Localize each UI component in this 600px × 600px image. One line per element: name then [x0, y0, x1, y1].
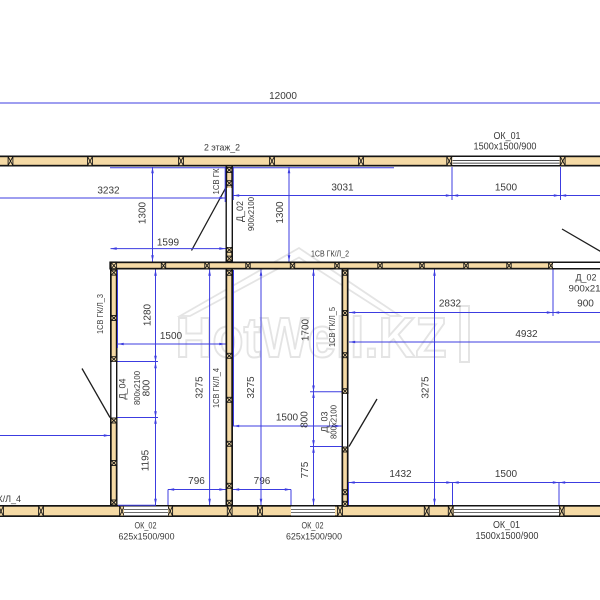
- svg-text:1300: 1300: [275, 201, 286, 224]
- svg-text:4932: 4932: [515, 329, 538, 340]
- svg-text:Д_04: Д_04: [118, 379, 128, 400]
- svg-text:1500: 1500: [495, 183, 518, 194]
- svg-text:3275: 3275: [195, 376, 206, 399]
- svg-text:2 этаж_2: 2 этаж_2: [204, 143, 240, 154]
- svg-text:1СВ ГК/Л_3: 1СВ ГК/Л_3: [96, 293, 105, 334]
- svg-text:1СВ ГК/Л_2: 1СВ ГК/Л_2: [311, 249, 349, 258]
- svg-text:Д_02: Д_02: [235, 201, 245, 222]
- svg-text:1500: 1500: [495, 469, 518, 480]
- svg-text:ОК_01: ОК_01: [493, 520, 520, 531]
- svg-text:3275: 3275: [246, 376, 257, 399]
- svg-text:800: 800: [142, 379, 153, 396]
- svg-text:900: 900: [577, 299, 594, 310]
- svg-text:3031: 3031: [331, 183, 354, 194]
- svg-text:1СВ ГК/Л_4: 1СВ ГК/Л_4: [212, 367, 221, 408]
- svg-text:1195: 1195: [141, 449, 152, 471]
- svg-text:800: 800: [300, 411, 311, 428]
- svg-text:1599: 1599: [157, 237, 180, 248]
- svg-text:1СВ ГК: 1СВ ГК: [212, 168, 221, 194]
- svg-text:2832: 2832: [439, 299, 462, 310]
- svg-text:1СВ ГК/Л_4: 1СВ ГК/Л_4: [0, 494, 21, 504]
- svg-text:1500: 1500: [276, 413, 299, 424]
- svg-text:1300: 1300: [138, 201, 149, 224]
- svg-text:800x2100: 800x2100: [329, 405, 339, 439]
- svg-text:3232: 3232: [97, 186, 120, 197]
- svg-text:775: 775: [300, 461, 311, 478]
- svg-text:ОК_01: ОК_01: [494, 131, 521, 142]
- svg-text:ОК_02: ОК_02: [135, 521, 157, 531]
- svg-text:900x2100: 900x2100: [569, 284, 600, 294]
- svg-text:1432: 1432: [389, 469, 412, 480]
- svg-text:800x2100: 800x2100: [132, 371, 142, 405]
- svg-text:796: 796: [254, 476, 271, 487]
- svg-text:625x1500/900: 625x1500/900: [286, 532, 342, 542]
- svg-text:1500x1500/900: 1500x1500/900: [476, 531, 539, 542]
- svg-text:1500x1500/900: 1500x1500/900: [474, 142, 537, 153]
- svg-text:1280: 1280: [143, 303, 154, 326]
- svg-text:796: 796: [188, 476, 205, 487]
- svg-text:625x1500/900: 625x1500/900: [119, 532, 175, 542]
- svg-text:Д_02: Д_02: [576, 273, 597, 283]
- svg-text:3275: 3275: [421, 376, 432, 399]
- svg-text:12000: 12000: [269, 91, 297, 102]
- svg-text:ОК_02: ОК_02: [302, 521, 324, 531]
- svg-text:900x2100: 900x2100: [246, 197, 256, 231]
- svg-text:1СВ ГК/Л_5: 1СВ ГК/Л_5: [328, 306, 337, 347]
- svg-text:1500: 1500: [160, 331, 183, 342]
- svg-text:1700: 1700: [301, 318, 312, 341]
